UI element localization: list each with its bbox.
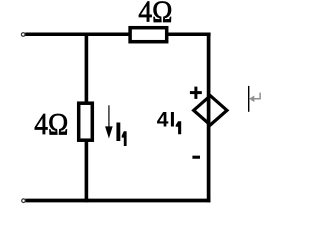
label: - polarity of dependent source	[192, 156, 200, 159]
wire: right vertical (through dependent source)	[207, 33, 211, 203]
svg-text:4Ω: 4Ω	[34, 106, 68, 141]
text cursor artifact (caret with grey return-arrow)	[249, 86, 260, 112]
wire: bottom horizontal from left terminal to bottom-right corner	[25, 199, 210, 203]
terminal: top-left open port	[21, 33, 25, 37]
wire: top horizontal from left terminal to top-right corner	[25, 33, 210, 37]
resistor R-top body (4 ohm, horizontal)	[130, 28, 167, 42]
svg-text:4Ω: 4Ω	[138, 0, 172, 29]
wire: middle vertical branch	[85, 33, 89, 203]
label: + polarity of dependent source	[190, 87, 202, 99]
terminal: bottom-left open port	[22, 199, 26, 203]
svg-text:4I: 4I	[157, 108, 177, 131]
label: 4 ohm (top resistor value)	[138, 0, 172, 29]
label: 4I (dependent source value)	[157, 108, 177, 131]
label: I (branch current symbol)	[115, 117, 123, 147]
dependent source 4I1: diamond body	[194, 96, 227, 125]
label: 4 ohm (left resistor value)	[34, 106, 68, 141]
label: subscript 1 of branch current I1	[122, 131, 127, 146]
resistor R-left body (4 ohm, vertical)	[79, 103, 93, 140]
label: subscript 1 of dependent source value 4I1	[176, 121, 182, 134]
current arrow I1 (grey shaft, black head, pointing down)	[105, 105, 113, 138]
svg-text:I: I	[115, 117, 123, 147]
